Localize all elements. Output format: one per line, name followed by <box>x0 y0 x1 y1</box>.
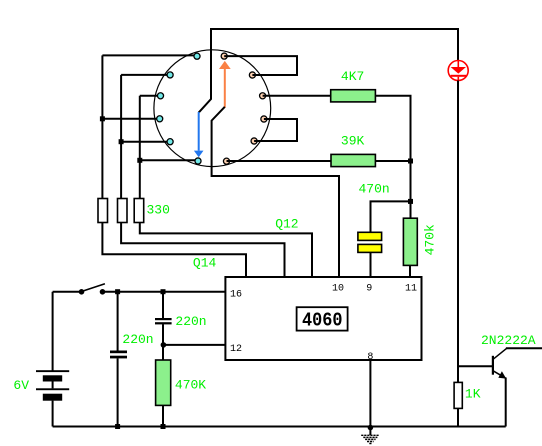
rotary right deck contact dots <box>221 53 267 164</box>
battery B1 6V <box>36 370 69 401</box>
junction pin12 branch <box>161 342 167 348</box>
svg-text:330: 330 <box>147 203 170 218</box>
wire 470k to IC pin 11 <box>409 265 411 277</box>
wire right contact 3 to 4K7 <box>263 95 331 97</box>
wire battery top from power rail <box>52 292 54 371</box>
wire left contact 6 <box>140 159 198 161</box>
svg-text:220n: 220n <box>175 314 206 329</box>
wire left contact 1 <box>102 54 197 56</box>
wire left bus 2 vertical <box>120 75 122 199</box>
transistor Q1 2N2222A <box>493 348 507 378</box>
svg-text:6V: 6V <box>13 378 29 393</box>
svg-text:16: 16 <box>230 289 242 300</box>
wire left contact 4 <box>102 118 159 120</box>
svg-text:Q14: Q14 <box>193 255 217 270</box>
svg-text:470k: 470k <box>422 224 437 255</box>
svg-text:Q12: Q12 <box>275 216 298 231</box>
wire 330a to IC pin (Q14 trace) <box>102 223 246 278</box>
wire switch shaft bottom (right wiper to IC pin 10) <box>212 107 339 277</box>
resistor 330 b <box>118 199 128 223</box>
svg-text:11: 11 <box>405 284 417 295</box>
svg-text:1K: 1K <box>465 387 481 402</box>
svg-text:4K7: 4K7 <box>341 69 364 84</box>
wire left contact 3 <box>140 95 161 97</box>
wire power rail to IC pin 16 <box>103 291 226 293</box>
wire collector out to right edge <box>506 347 542 349</box>
svg-text:4060: 4060 <box>302 310 343 332</box>
wire node down to 470k <box>410 161 412 218</box>
resistor 330 a <box>98 199 108 223</box>
rotary switch S2 circle <box>154 50 271 167</box>
wire 470n to IC pin 9 <box>370 252 372 277</box>
capacitor 220n (right) <box>155 318 172 324</box>
wire left contact 2 <box>121 74 170 76</box>
rotary left deck contact dots <box>157 53 201 164</box>
wire ground rail <box>53 426 506 428</box>
junction bus3 <box>137 158 142 163</box>
svg-text:470K: 470K <box>175 378 206 393</box>
wire right contacts 4-5 link <box>254 119 297 141</box>
junction power rail cap2 <box>161 289 166 294</box>
wire 39K right to node <box>375 160 410 162</box>
resistor 39K <box>331 154 375 166</box>
svg-text:12: 12 <box>230 344 242 355</box>
4060 label box <box>297 307 348 330</box>
wire cap2 top <box>162 292 164 318</box>
wire to IC pin 12 <box>163 344 225 346</box>
resistor 1K <box>454 382 462 408</box>
junction ground <box>368 425 374 431</box>
resistor 470k <box>403 218 417 265</box>
resistor 470K <box>156 360 171 405</box>
orange wiper arrow <box>219 61 231 108</box>
wire LED anode drop <box>457 28 459 61</box>
wire right rail LED cathode down to 1K top <box>457 81 459 383</box>
resistor 4K7 <box>331 90 376 102</box>
wire 470K bottom to ground rail <box>162 405 164 426</box>
wire right contact 6 to 39K <box>227 160 332 162</box>
wire 1K bottom to ground rail <box>457 408 459 427</box>
wire battery bottom to ground rail <box>52 401 54 427</box>
wire cap1 bottom <box>117 358 119 426</box>
svg-text:9: 9 <box>366 284 372 295</box>
wire pin 8 to ground rail <box>369 360 371 427</box>
ground symbol <box>361 428 379 444</box>
wire switch shaft top (left wiper to top rail) <box>199 28 211 113</box>
resistor 330 c <box>134 199 144 223</box>
junction bus2 <box>119 139 124 144</box>
junction bus1 <box>100 116 105 121</box>
svg-text:10: 10 <box>332 284 344 295</box>
junction node at 39K/4K7 <box>408 159 413 164</box>
junction power rail cap1 <box>115 289 120 294</box>
wire branch to 470n cap <box>371 201 411 232</box>
wire 330b to IC pin <box>121 223 284 278</box>
capacitor 470n <box>358 232 382 252</box>
wire base wire <box>458 365 493 367</box>
svg-text:220n: 220n <box>122 332 153 347</box>
wire power rail left segment <box>53 291 80 293</box>
wire cap2 bottom to 470K <box>162 324 164 360</box>
blue wiper arrow <box>194 112 204 157</box>
wire emitter down to ground rail <box>505 378 507 427</box>
wire cap1 top <box>117 292 119 351</box>
junction ground rail cap1 <box>115 424 120 429</box>
wire left contact 5 <box>121 141 170 143</box>
svg-text:39K: 39K <box>341 134 365 149</box>
wire top rail from switch shaft to LED rail <box>211 28 458 30</box>
wire 4K7 right to node <box>375 96 410 161</box>
LED D1 <box>448 61 468 81</box>
wire left bus 1 vertical <box>101 55 103 198</box>
wire left bus 3 vertical <box>139 96 141 199</box>
IC U1 4060 box <box>225 277 421 360</box>
svg-text:2N2222A: 2N2222A <box>481 333 536 348</box>
capacitor 220n (left) <box>110 351 127 359</box>
wire right contacts 1-2 link <box>224 56 297 75</box>
wire 330c to IC pin (Q12 trace) <box>140 223 312 278</box>
switch S1 <box>79 284 106 295</box>
junction ground rail cap2 <box>161 424 166 429</box>
svg-text:470n: 470n <box>359 181 390 196</box>
junction node cap branch <box>408 199 413 204</box>
